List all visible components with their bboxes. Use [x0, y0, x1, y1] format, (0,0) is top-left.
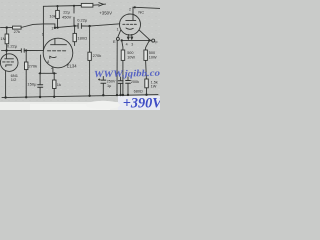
- svg-text:2: 2: [51, 66, 53, 70]
- terminal E circle: [116, 37, 119, 40]
- paper background: [0, 0, 160, 110]
- top B+ rail wire: [43, 5, 81, 8]
- wire plate node: [43, 24, 55, 28]
- node pin1 V2: [54, 27, 56, 29]
- capacitor 1u250V plates: [101, 80, 106, 83]
- triode V2 cathode: [50, 56, 56, 58]
- resistor R plate-supply horizontal box: [81, 3, 93, 7]
- wire riser x43: [42, 6, 44, 50]
- resistor 500 10W left vertical: [122, 40, 123, 50]
- rail dots: [4, 96, 6, 98]
- svg-text:1: 1: [42, 33, 44, 37]
- capacitor 150u plates: [38, 85, 43, 88]
- svg-text:+350V: +350V: [99, 10, 112, 15]
- svg-text:500: 500: [149, 51, 155, 55]
- triode V1a cathode: [6, 65, 12, 67]
- svg-text:+390V: +390V: [123, 96, 160, 110]
- svg-text:1: 1: [51, 26, 53, 30]
- svg-text:EL34: EL34: [67, 63, 77, 68]
- capacitor 0.22u coupling to output: [78, 23, 81, 28]
- triode V1a grid dashes: [3, 61, 14, 63]
- resistor 1M vertical: [6, 28, 8, 34]
- wire terminal E down: [116, 40, 118, 95]
- svg-text:500: 500: [127, 51, 133, 55]
- triode V1a plate: [5, 51, 14, 59]
- node 22u wire: [73, 25, 75, 27]
- svg-text:680Ω: 680Ω: [134, 90, 143, 94]
- wire node to coupling cap: [55, 26, 78, 28]
- svg-text:0.22μ: 0.22μ: [77, 18, 88, 23]
- wire cathode bus: [39, 72, 56, 74]
- resistor 270k grid vertical: [25, 51, 27, 63]
- wire 27k to corner: [21, 24, 43, 28]
- wire V1a cathode to ground: [5, 71, 7, 98]
- wire cap to grid resistor node: [24, 49, 43, 51]
- svg-text:1k: 1k: [57, 82, 61, 87]
- capacitor C right plates: [126, 81, 131, 84]
- junction dots: [4, 5, 150, 99]
- +350V supply arrow: [99, 3, 104, 6]
- resistor 500 10W right vertical: [146, 40, 150, 50]
- tube V3 cathode: [126, 28, 133, 29]
- polarity plus mark: [98, 79, 100, 81]
- node plate V1a: [5, 49, 7, 51]
- resistor 1.5k 1W vertical: [145, 79, 149, 88]
- svg-text:1: 1: [117, 28, 119, 32]
- svg-text:270k: 270k: [93, 53, 102, 58]
- resistor 1k cathode vertical: [53, 73, 55, 80]
- svg-text:WWW.jqibb.co: WWW.jqibb.co: [94, 69, 160, 80]
- labels: [0, 7, 158, 93]
- ground rail: [2, 95, 158, 98]
- svg-text:NC: NC: [138, 9, 144, 14]
- resistor 27k horizontal box: [13, 26, 22, 29]
- node cathode bus right: [53, 72, 55, 74]
- wire V3 pin right diagonal: [139, 30, 149, 39]
- capacitor C right leads: [127, 77, 129, 80]
- svg-text:27k: 27k: [14, 29, 20, 34]
- wire V3 pin1 left diagonal: [118, 30, 121, 37]
- node cathode bus left: [39, 72, 41, 74]
- tube V3 grid dashes: [123, 23, 137, 25]
- svg-text:270k: 270k: [28, 63, 37, 68]
- node link right: [148, 39, 150, 41]
- svg-text:1W: 1W: [151, 85, 157, 89]
- node 10k: [56, 27, 58, 29]
- heater pin 4 arrow: [127, 34, 129, 39]
- svg-text:200k: 200k: [131, 80, 139, 84]
- svg-text:8: 8: [47, 60, 49, 64]
- wire V2 cathode pin lead: [52, 67, 54, 73]
- heater pin 3 arrow: [131, 34, 133, 39]
- capacitor 1u250V leads: [102, 77, 104, 81]
- capacitor C mid plates: [118, 81, 123, 84]
- svg-text:10W: 10W: [127, 56, 135, 60]
- bottom white margin strip: [0, 102, 160, 110]
- node input/1M: [6, 26, 8, 28]
- tube V3 output envelope: [120, 14, 141, 35]
- resistor 10k vertical: [57, 6, 59, 10]
- node rail 10k: [56, 5, 58, 7]
- svg-text:180Ω: 180Ω: [77, 36, 87, 41]
- input wire: [1, 27, 13, 29]
- capacitor 150u cathode leads: [39, 73, 41, 85]
- capacitor 0.22u input coupling: [21, 49, 24, 53]
- resistor 100 screen vertical: [74, 26, 76, 34]
- wire cap to grid: [82, 24, 120, 26]
- capacitor C mid leads: [120, 77, 122, 81]
- svg-text:10k: 10k: [49, 13, 55, 18]
- svg-text:4: 4: [126, 42, 128, 46]
- resistor 270k output-grid vertical: [89, 26, 91, 52]
- triode V2 plate: [51, 39, 67, 45]
- wire first-stage plate lead: [2, 50, 21, 52]
- node NC corner: [134, 6, 136, 8]
- svg-text:3: 3: [131, 42, 133, 46]
- svg-text:E: E: [113, 39, 116, 44]
- terminal F circle: [152, 39, 155, 42]
- svg-text:1μ: 1μ: [107, 84, 111, 88]
- svg-text:0.22μ: 0.22μ: [7, 43, 18, 48]
- svg-text:2: 2: [129, 7, 131, 11]
- node rail 22u: [73, 5, 75, 7]
- svg-text:150μ: 150μ: [27, 81, 37, 86]
- svg-text:1M: 1M: [0, 36, 6, 41]
- svg-text:1/2: 1/2: [11, 77, 17, 82]
- tube V3 top pin 2 wire NC: [133, 7, 160, 14]
- node link left: [121, 39, 123, 41]
- triode V1a envelope: [0, 54, 18, 72]
- svg-text:10W: 10W: [149, 56, 157, 60]
- triode V2 grid dashes: [48, 50, 66, 52]
- wire to supply arrow: [93, 4, 99, 6]
- node cap out: [88, 25, 90, 27]
- wire cathode link horizontal: [122, 39, 150, 41]
- tube V3 plate: [126, 14, 136, 20]
- triode V2 driver envelope: [43, 38, 73, 68]
- svg-text:450V: 450V: [62, 14, 72, 19]
- capacitor 22u450V leads: [73, 6, 75, 13]
- node grid V2: [25, 49, 27, 51]
- wire V2 pin8 lead: [40, 55, 42, 73]
